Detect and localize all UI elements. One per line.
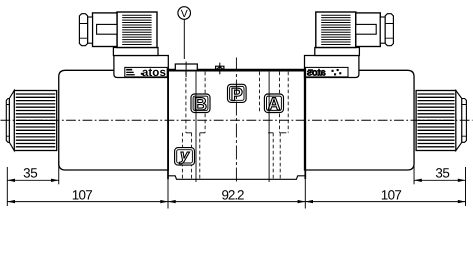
cable gland ring (left): [88, 17, 93, 43]
vertical center line P: [235, 58, 237, 184]
gauge line V: [183, 19, 185, 59]
tube end cap (left): [6, 99, 9, 143]
extension line right solenoid edge: [413, 161, 415, 184]
atos label (right, back side): [306, 67, 348, 78]
connector lower box (right): [305, 56, 359, 78]
connector ridged cap (left): [117, 12, 157, 48]
extension line valve left: [167, 179, 169, 208]
port box A: [264, 94, 283, 114]
dimension 35 (right): [414, 166, 465, 182]
hidden line left of Y: [181, 133, 183, 179]
cable gland hex nut (right): [385, 14, 393, 46]
bore step A: [268, 132, 286, 134]
dimension 92.2 (center): [168, 187, 305, 203]
valve body right edge: [304, 69, 306, 180]
hidden bore line A left (wide): [259, 72, 261, 113]
hidden bore line A outer right: [287, 72, 289, 133]
connector housing (right): [356, 13, 381, 47]
valve body top edge (thick): [167, 69, 306, 72]
port box P: [228, 84, 247, 104]
extension line left outer: [6, 167, 8, 206]
port box Y: [175, 147, 195, 165]
cable gland hex nut (left): [79, 14, 87, 46]
svg-text:35: 35: [435, 166, 450, 181]
connector ridged cap (right): [316, 12, 356, 48]
svg-text:atos: atos: [142, 66, 166, 79]
knurl chamfer band (right): [456, 91, 462, 151]
hidden bore line A left (narrow): [272, 133, 274, 179]
knurled nut (right): [416, 91, 456, 151]
plug bump on valve top: [175, 64, 197, 70]
vent plug symbol: [216, 63, 224, 75]
port box B: [191, 94, 210, 114]
connector lower box (left): [114, 56, 168, 78]
connector base plate (left): [113, 48, 158, 56]
connector base plate (right): [315, 48, 360, 56]
hidden bore line A right (narrow): [279, 133, 281, 179]
connector slot (right): [356, 24, 376, 34]
svg-text:y: y: [179, 147, 190, 164]
svg-text:V: V: [181, 8, 188, 20]
hidden bore line A right (wide): [279, 72, 281, 133]
svg-text:35: 35: [23, 166, 38, 181]
hidden bore line B right (wide): [204, 72, 206, 133]
bore center line A: [268, 72, 270, 182]
dimension 107 (right): [305, 187, 465, 203]
atos label (left): [125, 66, 167, 79]
svg-text:atos: atos: [306, 67, 326, 78]
valve body bottom edge with locating steps: [168, 176, 305, 180]
tube end cap (right): [462, 99, 467, 143]
bore step B: [186, 132, 205, 134]
valve body left edge: [167, 69, 169, 180]
svg-text:92.2: 92.2: [222, 187, 245, 202]
plug center line: [185, 62, 187, 78]
extension line left solenoid edge: [58, 161, 60, 184]
cable gland ring (right): [380, 17, 385, 43]
hidden bore line B left (wide): [185, 72, 187, 133]
hidden bore line B right (narrow): [199, 133, 201, 179]
solenoid S2 body (right): [305, 70, 415, 170]
hidden bore line B left (narrow): [191, 133, 193, 179]
bore center line B: [195, 72, 197, 182]
connector housing (left): [93, 13, 118, 47]
horizontal center line: [1, 119, 473, 121]
connector slot (left): [97, 24, 117, 34]
svg-text:107: 107: [381, 187, 402, 202]
knurl chamfer band (left): [9, 91, 14, 151]
knurled nut (left): [14, 91, 57, 151]
extension line right outer: [465, 167, 467, 206]
gauge symbol V circle: [178, 7, 191, 21]
svg-text:107: 107: [72, 187, 93, 202]
solenoid S1 body (left): [59, 70, 169, 170]
dimension 35 (left): [7, 166, 58, 182]
dimension 107 (left): [7, 187, 168, 203]
extension line valve right: [304, 179, 306, 208]
